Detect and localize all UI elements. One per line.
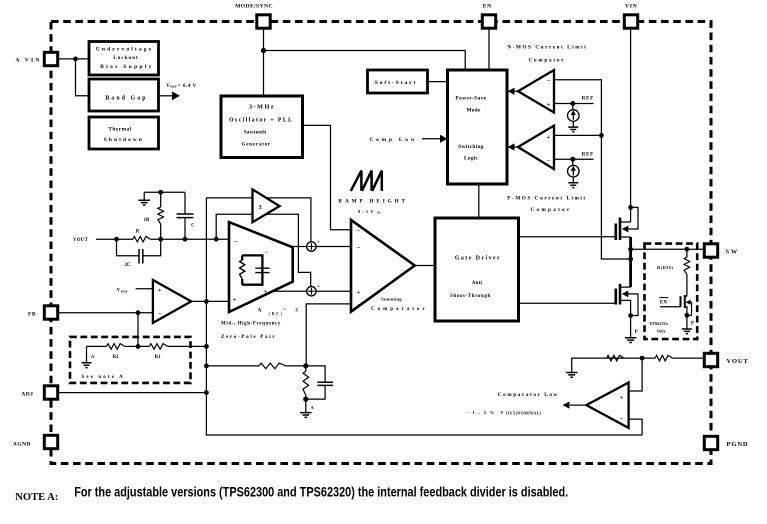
svg-text:+: +	[620, 395, 624, 402]
wire feedforward to bottom summing node	[216, 214, 311, 286]
svg-text:( D C ): ( D C )	[269, 312, 283, 316]
svg-text:3-MHz: 3-MHz	[249, 104, 275, 111]
label P-MOS current limit comparator	[507, 196, 586, 214]
svg-text:= 0.4 V: = 0.4 V	[178, 84, 197, 89]
wire FB row	[59, 312, 153, 314]
svg-text:REF: REF	[582, 96, 594, 102]
P-MOS comparator output arrow	[508, 143, 519, 150]
chip boundary dashed border	[51, 22, 711, 464]
svg-text:For the adjustable versions (T: For the adjustable versions (TPS62300 an…	[74, 485, 568, 500]
svg-text:Shutdown: Shutdown	[104, 137, 144, 143]
wire top node of 1R	[144, 191, 185, 193]
pin VIN	[624, 3, 637, 28]
wire feedforward to gain amp and top summing node	[206, 198, 311, 242]
transistor P-MOS high side	[616, 207, 638, 240]
wire FB node long vertical	[206, 198, 642, 435]
pin ADJ	[21, 386, 57, 399]
resistor compensation vertical	[303, 366, 309, 399]
ground analog compensation	[300, 399, 314, 417]
comparator low	[586, 383, 628, 428]
svg-text:V: V	[117, 289, 121, 294]
svg-text:Mid-, High-Frequency: Mid-, High-Frequency	[221, 321, 281, 326]
capacitor C	[177, 192, 196, 239]
svg-text:R1: R1	[155, 355, 161, 360]
wire P-MOS comparator plus input	[554, 134, 601, 136]
svg-text:Summing: Summing	[381, 297, 402, 302]
label mid high frequency zero pole pair	[221, 321, 281, 340]
svg-text:Comparator Low: Comparator Low	[498, 392, 559, 398]
node R(DIS) top on SW line	[685, 247, 690, 252]
wire VOUT sense row	[96, 238, 229, 240]
pin SW	[704, 244, 739, 257]
wire SW node to SW pin	[631, 248, 703, 250]
sawtooth ramp icon	[351, 171, 382, 191]
svg-text:VOUT: VOUT	[73, 238, 89, 243]
op-amp gain 3	[253, 189, 280, 222]
svg-text:−: −	[357, 245, 361, 252]
svg-text:Band Gap: Band Gap	[105, 96, 147, 102]
block band gap	[89, 79, 159, 111]
note A text	[15, 485, 568, 503]
ground analog feedforward	[138, 192, 150, 205]
block gate driver anti shoot-through	[435, 218, 519, 321]
label comparator low threshold	[466, 410, 542, 416]
block power-save mode switching logic	[448, 70, 508, 184]
svg-text:P-MOS Current Limit: P-MOS Current Limit	[507, 196, 586, 202]
block soft-start	[368, 70, 428, 93]
label comparator low	[498, 392, 559, 398]
transistor N-MOS low side	[616, 284, 638, 316]
wire AVIN branch to Band Gap	[76, 59, 90, 96]
TPS6232x only dashed box	[645, 244, 698, 340]
comparator low output arrow	[563, 402, 587, 409]
node SW junction	[628, 247, 633, 252]
wire VOUT pin row	[607, 357, 703, 359]
wire MODE/SYNC pin down to oscillator	[263, 30, 265, 97]
resistor VOUT sense left	[607, 355, 624, 361]
svg-text:−: −	[357, 228, 361, 235]
svg-text:R(DIS): R(DIS)	[657, 265, 673, 270]
wire error amp bottom output	[272, 290, 307, 292]
wire oscillator ramp output to summing comparator	[303, 125, 352, 229]
op-amp VREF error amplifier	[153, 280, 191, 323]
node MODE junction	[261, 48, 266, 53]
wire error amp output	[191, 300, 229, 302]
svg-text:+: +	[547, 102, 551, 109]
svg-text:EN: EN	[483, 3, 492, 9]
svg-text:−: −	[547, 78, 551, 85]
svg-text:Logic: Logic	[464, 156, 478, 162]
svg-text:A: A	[258, 308, 262, 314]
svg-text:Gate Driver: Gate Driver	[455, 256, 501, 262]
node P-MOS source	[628, 205, 633, 210]
label EN bar	[659, 298, 668, 306]
svg-text:Power-Save: Power-Save	[455, 96, 486, 102]
wire comparator low plus input	[629, 358, 643, 391]
label VOUT sense	[73, 238, 89, 243]
svg-text:Undervoltage: Undervoltage	[96, 46, 154, 52]
wire compensation row	[206, 365, 305, 367]
svg-text:Comp Low: Comp Low	[369, 137, 417, 143]
pin AVIN	[15, 52, 57, 65]
svg-text:REF: REF	[582, 151, 594, 157]
svg-text:FB: FB	[28, 312, 36, 318]
wire summing node bottom to comparator	[316, 290, 351, 292]
svg-text:A VIN: A VIN	[15, 57, 41, 63]
node error amp output on FB vertical	[204, 299, 209, 304]
wire summing comparator input 4	[306, 304, 351, 366]
wire SW thick segment	[629, 237, 632, 287]
resistor 1R	[144, 192, 164, 239]
comp low input arrow	[369, 135, 447, 143]
node N-MOS source	[628, 313, 633, 318]
svg-text:R2: R2	[113, 355, 119, 360]
wire VREF lead	[117, 289, 153, 294]
ground REF P-MOS	[568, 183, 578, 188]
op-amp error amplifier trapezoid	[229, 222, 293, 312]
svg-text:RAMP HEIGHT: RAMP HEIGHT	[338, 199, 408, 205]
wire error amp top output	[293, 246, 307, 248]
node FB junction	[136, 310, 141, 315]
ground power discharge	[682, 315, 694, 334]
wire comparator low minus loop	[629, 419, 643, 435]
summing node top	[307, 241, 320, 252]
svg-text:Switching: Switching	[458, 144, 483, 150]
resistor compensation horizontal	[259, 363, 286, 369]
svg-text:−: −	[547, 158, 551, 165]
wire divider row	[87, 345, 207, 347]
pin FB	[28, 306, 58, 319]
block thermal shutdown	[89, 117, 159, 149]
wire Power-Save logic to Gate Driver	[478, 184, 480, 218]
label ramp height	[338, 199, 408, 215]
node VOUT row junctions	[114, 237, 219, 242]
comparator P-MOS current limit	[518, 126, 554, 170]
svg-text:OUT(NOMINAL): OUT(NOMINAL)	[506, 411, 542, 416]
comparator N-MOS current limit	[518, 70, 554, 113]
svg-text:AGND: AGND	[13, 441, 31, 447]
svg-text:TPS6232x: TPS6232x	[649, 321, 668, 326]
svg-text:P: P	[635, 330, 638, 335]
svg-text:+: +	[158, 287, 162, 294]
current source REF N-MOS comparator	[568, 96, 594, 128]
ground analog divider	[82, 346, 95, 367]
svg-text:MODE/SYNC: MODE/SYNC	[235, 3, 273, 9]
svg-text:Lockout: Lockout	[113, 55, 138, 61]
svg-text:Generator: Generator	[242, 142, 271, 148]
svg-text:3: 3	[259, 205, 262, 211]
block oscillator PLL sawtooth generator	[221, 96, 303, 158]
wire P-MOS comparator REF input	[554, 158, 594, 160]
node compensation junctions	[204, 363, 308, 401]
wire VIN pin down to P-MOS	[630, 30, 632, 223]
pin PGND	[704, 436, 748, 449]
resistor VOUT sense right	[655, 355, 672, 361]
node divider junctions	[136, 344, 209, 349]
ground VOUT sense	[566, 358, 607, 377]
svg-text:Oscillator + PLL: Oscillator + PLL	[229, 117, 293, 123]
transistor discharge FET	[660, 295, 691, 315]
svg-text:ADJ: ADJ	[21, 392, 33, 398]
node VOUT sense junction	[640, 356, 645, 361]
wire FB to divider	[137, 313, 139, 347]
svg-text:See note A: See note A	[82, 375, 125, 380]
pin MODE/SYNC	[235, 3, 273, 28]
svg-text:Compator: Compator	[531, 207, 572, 213]
svg-text:Comparator: Comparator	[371, 307, 428, 312]
N-MOS comparator output arrow	[508, 88, 519, 95]
resistor capacitor inside error amp	[240, 255, 270, 284]
summing node bottom	[307, 285, 320, 296]
wire Gate Driver to N-MOS gate	[519, 302, 616, 304]
svg-text:NOTE A:: NOTE A:	[15, 492, 58, 503]
svg-text:+: +	[233, 296, 237, 303]
svg-text:Compator: Compator	[529, 58, 566, 64]
svg-text:PGND: PGND	[727, 441, 749, 448]
pin EN	[482, 3, 495, 28]
node sense junction	[599, 133, 633, 261]
block undervoltage lockout bias supply	[89, 42, 159, 76]
label N-MOS current limit comparator	[507, 45, 587, 64]
wire MODE/SYNC branch to Power-Save logic	[264, 51, 466, 71]
pin AGND	[13, 435, 58, 448]
comparator summing	[351, 220, 415, 312]
wire EN pin down to Power-Save logic	[488, 30, 490, 71]
svg-text:−: −	[620, 416, 624, 423]
svg-text:−: −	[265, 250, 269, 256]
pin VOUT	[704, 353, 748, 366]
svg-text:R: R	[136, 230, 140, 235]
svg-text:Soft-Start: Soft-Start	[375, 80, 418, 86]
svg-text:−: −	[234, 239, 238, 246]
svg-text:Shoot-Through: Shoot-Through	[450, 294, 491, 299]
resistor R	[133, 230, 150, 243]
label error amp gain	[258, 306, 299, 316]
svg-text:−: −	[158, 311, 162, 318]
svg-text:Anti: Anti	[472, 281, 483, 286]
svg-text:+: +	[317, 285, 320, 290]
wire summing comparator to Gate Driver	[415, 265, 435, 267]
node AVIN junction	[73, 57, 78, 62]
resistor R1	[149, 344, 167, 360]
capacitor compensation	[306, 366, 333, 399]
svg-text:Only: Only	[657, 328, 666, 333]
resistor R2	[107, 344, 125, 360]
resistor R(DIS)	[657, 249, 690, 296]
current source REF P-MOS comparator	[568, 151, 594, 183]
svg-text:+: +	[357, 303, 361, 310]
wire Gate Driver to P-MOS gate	[519, 236, 616, 238]
label summing comparator	[371, 297, 428, 313]
svg-text:+: +	[547, 134, 551, 141]
svg-text:VIN: VIN	[625, 3, 638, 9]
band gap output arrow	[159, 84, 197, 100]
svg-text:N-MOS Current Limit: N-MOS Current Limit	[507, 45, 587, 51]
svg-text:REF: REF	[121, 290, 128, 294]
svg-text:REF: REF	[170, 85, 177, 89]
ground power N-MOS	[625, 316, 638, 343]
ground REF N-MOS	[568, 127, 578, 132]
svg-text:C: C	[191, 224, 195, 229]
svg-text:− 1 . 2 %: − 1 . 2 %	[466, 410, 496, 415]
svg-text:Thermal: Thermal	[108, 126, 131, 132]
internal feedback divider dashed box	[70, 337, 191, 383]
svg-text:P: P	[691, 322, 694, 327]
svg-text:+: +	[264, 289, 268, 295]
svg-text:2C: 2C	[125, 263, 131, 268]
wire N-MOS comparator REF input	[554, 103, 594, 105]
wire summing node top to comparator	[316, 246, 351, 248]
svg-text:EN: EN	[660, 300, 668, 305]
wire ADJ row	[59, 392, 206, 394]
svg-text:SW: SW	[726, 248, 739, 255]
capacitor 2C	[117, 239, 161, 268]
node 1R top	[158, 190, 163, 195]
svg-text:VOUT: VOUT	[727, 358, 749, 365]
svg-text:+: +	[357, 289, 361, 296]
wire Soft-Start to Power-Save logic	[428, 81, 448, 83]
svg-text:Sawtooth: Sawtooth	[244, 130, 266, 136]
svg-text:0 . 1 V: 0 . 1 V	[358, 209, 374, 214]
node discharge FET source	[685, 313, 690, 318]
svg-text:Zero-Pole Pair: Zero-Pole Pair	[221, 335, 276, 340]
wire current limit sense line	[554, 80, 629, 259]
svg-text:+: +	[317, 241, 320, 246]
wire AVIN to UVLO	[59, 58, 89, 60]
svg-text:Bias Supply: Bias Supply	[100, 64, 154, 70]
node ADJ junction	[204, 390, 209, 395]
svg-text:1R: 1R	[144, 218, 150, 223]
svg-text:Mode: Mode	[467, 108, 481, 114]
